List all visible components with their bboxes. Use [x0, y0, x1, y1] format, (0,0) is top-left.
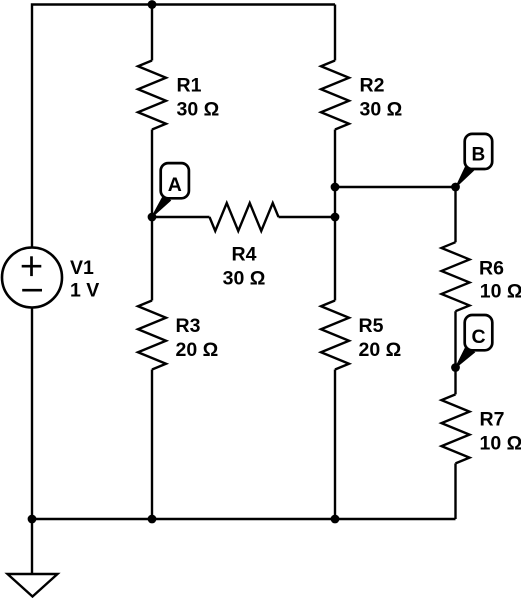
svg-text:20 Ω: 20 Ω [359, 339, 402, 361]
wire left rail lower [31, 308, 33, 519]
svg-text:R5: R5 [359, 315, 384, 337]
svg-text:R1: R1 [177, 75, 202, 97]
svg-text:A: A [168, 174, 182, 196]
node A tail [152, 195, 171, 218]
wire column1 lower lead [151, 370, 153, 520]
svg-text:R7: R7 [480, 409, 505, 431]
junction bottom col2 [331, 515, 340, 524]
junction col2 B-wire [331, 183, 340, 192]
V1 minus sign [22, 289, 42, 292]
V1 plus sign [22, 256, 42, 290]
svg-text:30 Ω: 30 Ω [177, 99, 220, 121]
node C box [465, 315, 493, 350]
resistor R7 [442, 394, 470, 463]
resistor R6 [442, 242, 470, 311]
wire node B branch [335, 187, 456, 242]
junction dot top [148, 0, 157, 9]
wire column2 lower lead [334, 370, 336, 520]
svg-text:30 Ω: 30 Ω [223, 268, 266, 290]
voltage source V1 [2, 248, 62, 308]
resistor R1 [138, 61, 166, 130]
resistor R2 [321, 61, 349, 130]
svg-text:30 Ω: 30 Ω [360, 99, 403, 121]
resistor R5 [321, 301, 349, 370]
wire bottom rail [32, 518, 456, 520]
wire column1 middle [151, 130, 153, 301]
node A box [161, 163, 189, 198]
node B box [465, 134, 493, 169]
wire column1 upper lead [151, 5, 153, 61]
svg-text:R4: R4 [232, 244, 257, 266]
ground [8, 574, 58, 597]
svg-text:V1: V1 [70, 257, 94, 279]
wire top rail [32, 5, 335, 248]
wire R7 lower lead [454, 463, 456, 519]
wire R4 right lead [279, 216, 336, 218]
svg-text:B: B [472, 144, 486, 165]
junction node C [451, 363, 460, 372]
svg-text:10 Ω: 10 Ω [480, 281, 521, 303]
wire R4 left lead [152, 216, 210, 218]
svg-text:R3: R3 [176, 315, 201, 337]
svg-text:R6: R6 [479, 258, 504, 280]
svg-text:1 V: 1 V [70, 279, 99, 301]
svg-text:C: C [471, 326, 485, 348]
wire ground lead [31, 519, 33, 574]
wire R6 to node C [454, 311, 456, 394]
node B tail [456, 165, 474, 188]
junction node B [451, 183, 460, 192]
junction bottom col1 [148, 515, 157, 524]
junction col2 R4 [331, 213, 340, 222]
node C tail [455, 347, 474, 369]
wire column2 upper lead [334, 5, 336, 61]
svg-text:10 Ω: 10 Ω [480, 432, 521, 454]
svg-text:R2: R2 [360, 75, 385, 97]
junction node A [148, 213, 157, 222]
wire column2 middle [334, 130, 336, 301]
resistor R3 [138, 301, 166, 370]
resistor R4 [210, 203, 279, 231]
svg-text:20 Ω: 20 Ω [176, 339, 219, 361]
junction bottom left [28, 515, 37, 524]
